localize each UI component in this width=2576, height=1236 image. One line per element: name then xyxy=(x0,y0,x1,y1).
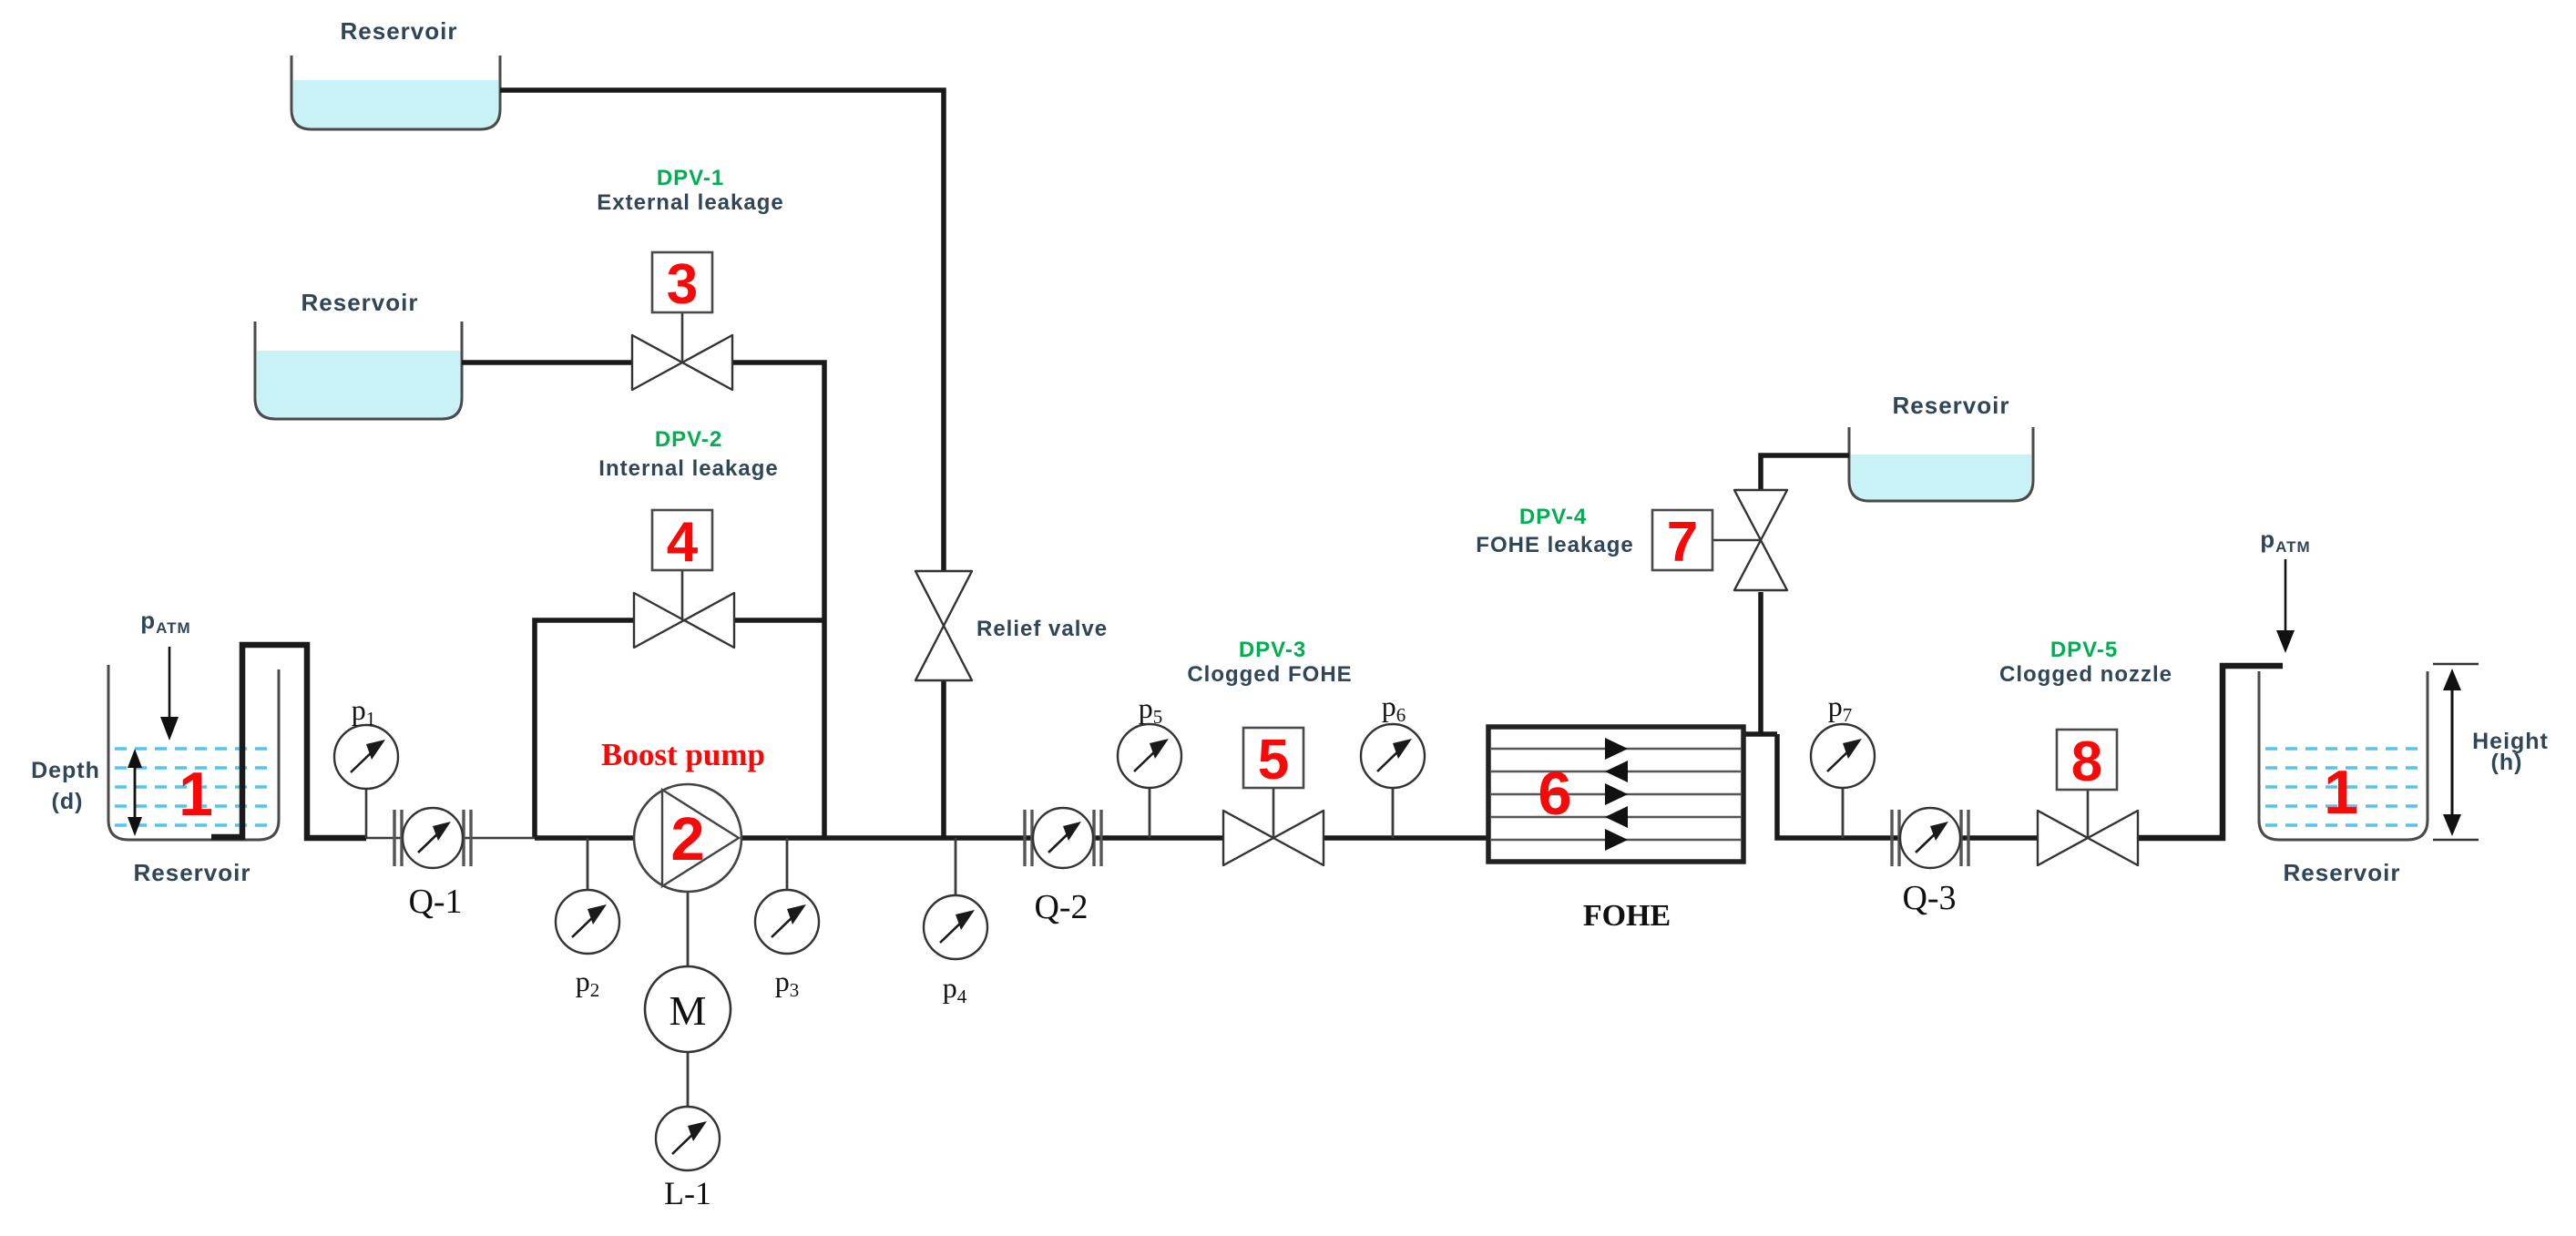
flow meter Q-2 xyxy=(1025,808,1101,868)
svg-text:(h): (h) xyxy=(2491,750,2523,775)
valve DPV-3 xyxy=(1223,811,1324,865)
wire: box 3 stem xyxy=(681,312,684,363)
wire: p6 gauge stem xyxy=(1392,787,1395,838)
svg-text:6: 6 xyxy=(1538,760,1571,828)
left open reservoir water dashed levels xyxy=(115,749,273,825)
reservoir C (upper-right) tank walls xyxy=(1849,427,2033,501)
svg-text:Boost pump: Boost pump xyxy=(601,737,765,772)
svg-text:1: 1 xyxy=(2324,758,2358,827)
valve DPV-1 xyxy=(632,335,732,390)
wire: valve DPV-1 to drop at x905 xyxy=(731,363,824,838)
fault box 5 xyxy=(1243,728,1303,788)
gauge p1 xyxy=(334,725,398,789)
valve DPV-2 xyxy=(634,593,734,648)
svg-text:Q-1: Q-1 xyxy=(408,883,462,921)
FOHE tube lines xyxy=(1491,749,1741,840)
wire: p1 gauge stem xyxy=(365,789,368,838)
flow meter Q-3 xyxy=(1892,808,1968,868)
right open reservoir water dashed levels xyxy=(2265,749,2421,825)
svg-text:1: 1 xyxy=(179,760,213,829)
wire: valve DPV-5 outlet riser into right reservoir xyxy=(2135,666,2283,838)
gauge p2 xyxy=(556,890,619,954)
wire: box 7 arm xyxy=(1712,539,1761,542)
svg-text:8: 8 xyxy=(2071,730,2102,793)
svg-text:Clogged nozzle: Clogged nozzle xyxy=(1999,662,2172,687)
wire: relief valve to main line xyxy=(941,680,946,838)
fault box 8 xyxy=(2057,730,2117,790)
svg-text:DPV-4: DPV-4 xyxy=(1519,505,1587,529)
right pATM arrow xyxy=(2285,559,2287,636)
depth double arrow xyxy=(134,760,137,825)
motor M circle xyxy=(645,966,731,1052)
relief valve symbol xyxy=(915,571,972,680)
svg-text:Reservoir: Reservoir xyxy=(134,859,251,886)
svg-text:Internal leakage: Internal leakage xyxy=(598,456,778,481)
FOHE heat exchanger box xyxy=(1488,727,1743,862)
svg-text:5: 5 xyxy=(1258,729,1289,792)
FOHE flow arrows xyxy=(1605,738,1628,851)
wire: thin suction line through Q-1 xyxy=(366,837,535,840)
gauge p6 xyxy=(1361,724,1425,788)
wire: p4 gauge stem xyxy=(955,838,957,896)
svg-text:Reservoir: Reservoir xyxy=(2284,859,2401,886)
reservoir B (mid-left) water fill xyxy=(257,351,460,418)
svg-text:3: 3 xyxy=(667,253,698,316)
flow meter Q-1 xyxy=(394,808,471,868)
wire: p3 gauge stem xyxy=(786,838,789,891)
wire: p2 gauge stem xyxy=(587,838,589,891)
valve DPV-5 xyxy=(2038,811,2138,865)
svg-text:M: M xyxy=(670,987,707,1034)
wire: DPV-2 right arm xyxy=(732,618,824,623)
svg-text:Relief valve: Relief valve xyxy=(976,617,1108,641)
wire: reservoir A outlet pipe to relief-valve drop xyxy=(500,90,944,571)
wire: FOHE up-branch to valve DPV-4 xyxy=(1758,592,1763,734)
wire: box 8 stem xyxy=(2087,790,2090,838)
wire: p7 gauge stem xyxy=(1842,787,1845,838)
wire: box 5 stem xyxy=(1273,789,1275,838)
gauge p3 xyxy=(755,890,819,954)
reservoir B (mid-left) tank walls xyxy=(255,322,462,419)
reservoir A (top-left) water fill xyxy=(293,80,498,128)
svg-text:External leakage: External leakage xyxy=(597,190,783,215)
svg-text:FOHE: FOHE xyxy=(1583,899,1671,933)
svg-text:Reservoir: Reservoir xyxy=(1893,392,2010,419)
svg-text:Reservoir: Reservoir xyxy=(302,289,419,316)
wire: motor M to L-1 link xyxy=(687,1052,690,1108)
svg-text:DPV-5: DPV-5 xyxy=(2050,638,2118,662)
left pATM arrow xyxy=(169,647,171,722)
svg-text:Q-2: Q-2 xyxy=(1034,888,1088,926)
svg-text:Clogged FOHE: Clogged FOHE xyxy=(1187,662,1352,687)
wire: FOHE outlet stub xyxy=(1743,731,1777,737)
svg-text:Q-3: Q-3 xyxy=(1902,879,1956,917)
svg-text:(d): (d) xyxy=(52,789,84,814)
reservoir A (top-left) tank walls xyxy=(291,56,500,129)
left open reservoir tank walls xyxy=(108,665,279,840)
wire: main line valve5 to FOHE xyxy=(1321,835,1494,841)
svg-text:7: 7 xyxy=(1667,511,1698,574)
height tick lines xyxy=(2433,663,2479,665)
gauge p4 xyxy=(924,895,987,959)
svg-text:DPV-3: DPV-3 xyxy=(1239,638,1306,662)
svg-text:DPV-1: DPV-1 xyxy=(657,166,724,190)
wire: main line pump section xyxy=(535,835,1225,841)
wire: FOHE outlet down to main line xyxy=(1777,734,2040,838)
svg-text:DPV-2: DPV-2 xyxy=(655,427,722,452)
valve DPV-4 xyxy=(1734,490,1787,590)
wire: pump to motor M link xyxy=(687,892,690,967)
reservoir C (upper-right) water fill xyxy=(1851,455,2031,500)
svg-text:Reservoir: Reservoir xyxy=(341,17,458,45)
gauge L-1 xyxy=(656,1107,720,1170)
boost pump circle xyxy=(634,784,741,892)
svg-text:4: 4 xyxy=(667,511,699,574)
wire: bypass left arm and drop (DPV-2 left) xyxy=(535,620,636,838)
wire: p5 gauge stem xyxy=(1149,787,1151,838)
fault box 3 xyxy=(652,252,712,312)
svg-text:FOHE leakage: FOHE leakage xyxy=(1476,533,1633,557)
fault box 7 xyxy=(1652,510,1712,570)
wire: valve DPV-4 to reservoir C xyxy=(1761,455,1849,489)
svg-text:2: 2 xyxy=(670,805,704,873)
gauge p5 xyxy=(1118,724,1181,788)
svg-text:Depth: Depth xyxy=(31,758,100,783)
wire: suction standpipe from left reservoir xyxy=(211,645,366,838)
wire: box 4 stem xyxy=(681,571,684,620)
height double arrow xyxy=(2451,679,2454,827)
right open reservoir tank walls xyxy=(2259,671,2428,840)
boost pump impeller triangle xyxy=(662,790,739,886)
fault box 4 xyxy=(652,510,712,570)
wire: reservoir B to valve DPV-1 xyxy=(462,360,634,365)
svg-text:L-1: L-1 xyxy=(664,1175,711,1211)
gauge p7 xyxy=(1811,724,1875,788)
